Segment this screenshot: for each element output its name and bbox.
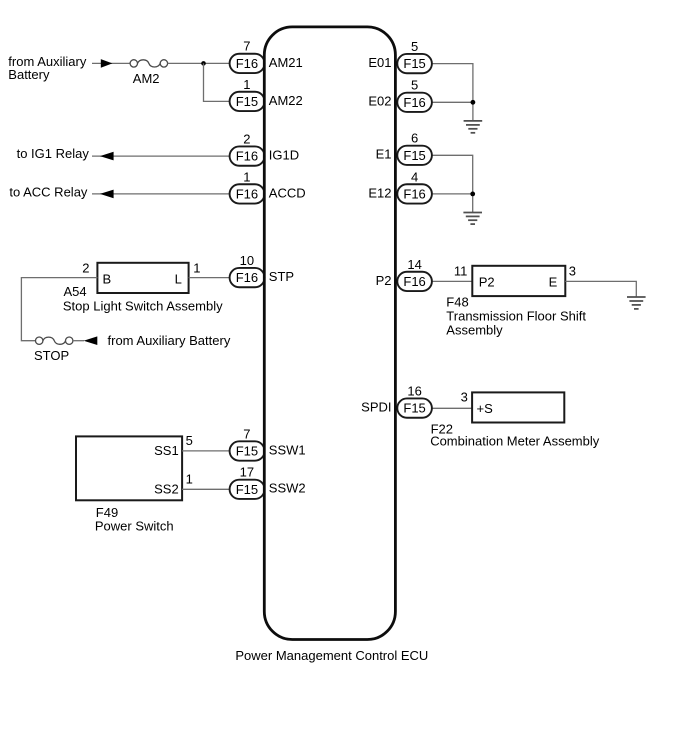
svg-text:E1: E1 bbox=[376, 147, 392, 162]
fuse AM2 bbox=[130, 60, 167, 67]
svg-text:A54: A54 bbox=[64, 284, 87, 299]
shift assembly F48 box bbox=[472, 266, 565, 296]
arrow from-auxiliary-battery (points right) bbox=[101, 59, 113, 68]
switch A54 box bbox=[97, 263, 188, 293]
svg-text:P2: P2 bbox=[479, 275, 495, 290]
ECU body outline bbox=[264, 27, 395, 640]
svg-text:1: 1 bbox=[186, 471, 193, 486]
wire E12 to junction bbox=[432, 193, 473, 195]
connector E02 F16 bbox=[397, 93, 432, 112]
svg-text:F15: F15 bbox=[403, 401, 425, 416]
meter F22 box bbox=[472, 392, 564, 422]
svg-text:E: E bbox=[549, 275, 558, 290]
svg-text:ACCD: ACCD bbox=[269, 185, 306, 200]
svg-text:4: 4 bbox=[411, 169, 418, 184]
connector E1 F15 bbox=[397, 146, 432, 165]
svg-text:E02: E02 bbox=[368, 94, 391, 109]
ground G3 bbox=[627, 297, 646, 309]
wire branch down to AM22 bbox=[204, 63, 231, 101]
svg-text:F15: F15 bbox=[236, 444, 258, 459]
svg-text:5: 5 bbox=[411, 78, 418, 93]
svg-text:P2: P2 bbox=[376, 273, 392, 288]
svg-text:to ACC Relay: to ACC Relay bbox=[9, 184, 88, 199]
svg-text:3: 3 bbox=[461, 389, 468, 404]
svg-text:3: 3 bbox=[569, 263, 576, 278]
wire to ACC relay bbox=[92, 193, 231, 195]
svg-text:SSW2: SSW2 bbox=[269, 481, 306, 496]
svg-text:2: 2 bbox=[82, 261, 89, 276]
wire F49 SS1 to SSW1 bbox=[182, 450, 230, 452]
junction node E02/ground bbox=[471, 100, 476, 105]
wire E01 to ground G1 bbox=[432, 64, 473, 121]
wire STOP fuse to arrow bbox=[73, 340, 84, 342]
arrow to-ACC-relay (points left) bbox=[100, 190, 114, 199]
svg-text:F15: F15 bbox=[403, 148, 425, 163]
svg-text:F16: F16 bbox=[236, 187, 258, 202]
svg-text:AM22: AM22 bbox=[269, 93, 303, 108]
svg-text:10: 10 bbox=[240, 253, 254, 268]
connector ACCD F16 bbox=[230, 184, 265, 203]
svg-text:F16: F16 bbox=[403, 187, 425, 202]
connector E01 F15 bbox=[397, 54, 432, 73]
svg-text:7: 7 bbox=[243, 39, 250, 54]
connector SSW2 F15 bbox=[230, 480, 265, 499]
junction node after AM2 bbox=[201, 61, 206, 66]
svg-text:1: 1 bbox=[243, 169, 250, 184]
svg-text:SSW1: SSW1 bbox=[269, 442, 306, 457]
svg-text:Power Management Control ECU: Power Management Control ECU bbox=[235, 648, 428, 663]
power switch F49 box bbox=[76, 436, 182, 500]
svg-text:1: 1 bbox=[243, 77, 250, 92]
connector E12 F16 bbox=[397, 184, 432, 203]
connector SSW1 F15 bbox=[230, 441, 265, 460]
wire to IG1 relay bbox=[92, 155, 231, 157]
svg-text:Stop Light Switch Assembly: Stop Light Switch Assembly bbox=[63, 299, 223, 314]
svg-text:6: 6 bbox=[411, 131, 418, 146]
svg-text:to IG1 Relay: to IG1 Relay bbox=[17, 146, 90, 161]
connector AM22 F15 bbox=[230, 92, 265, 111]
svg-text:STP: STP bbox=[269, 269, 294, 284]
connector IG1D F16 bbox=[230, 146, 265, 165]
fuse STOP bbox=[36, 337, 73, 344]
svg-text:AM21: AM21 bbox=[269, 55, 303, 70]
svg-text:Combination Meter Assembly: Combination Meter Assembly bbox=[430, 433, 600, 448]
svg-text:16: 16 bbox=[407, 384, 421, 399]
svg-text:F16: F16 bbox=[403, 274, 425, 289]
svg-text:E12: E12 bbox=[368, 185, 391, 200]
svg-text:F15: F15 bbox=[236, 94, 258, 109]
wire A54 to STP bbox=[189, 277, 231, 279]
svg-text:1: 1 bbox=[193, 261, 200, 276]
ground G2 bbox=[463, 213, 482, 225]
junction node E12/ground bbox=[470, 192, 475, 197]
svg-text:F48: F48 bbox=[446, 294, 468, 309]
wire SPDI to F22 bbox=[432, 407, 473, 409]
wire from auxiliary battery to fuse AM2 bbox=[92, 62, 130, 64]
svg-text:Power Switch: Power Switch bbox=[95, 519, 174, 534]
connector P2 F16 bbox=[397, 272, 432, 291]
svg-text:7: 7 bbox=[243, 426, 250, 441]
svg-text:SS1: SS1 bbox=[154, 443, 179, 458]
svg-text:STOP: STOP bbox=[34, 348, 69, 363]
ground G1 bbox=[464, 121, 483, 133]
svg-text:F16: F16 bbox=[236, 56, 258, 71]
arrow to-IG1-relay (points left) bbox=[100, 152, 114, 161]
svg-text:14: 14 bbox=[407, 257, 421, 272]
wire fuse AM2 to pin AM21 bbox=[168, 62, 231, 64]
svg-text:F16: F16 bbox=[236, 149, 258, 164]
svg-text:17: 17 bbox=[240, 465, 254, 480]
svg-text:F15: F15 bbox=[403, 56, 425, 71]
svg-text:AM2: AM2 bbox=[133, 71, 160, 86]
svg-text:SPDI: SPDI bbox=[361, 400, 391, 415]
svg-text:F16: F16 bbox=[403, 95, 425, 110]
wire A54 pin B down to STOP fuse bbox=[21, 278, 97, 341]
svg-text:Battery: Battery bbox=[8, 67, 50, 82]
svg-text:5: 5 bbox=[411, 39, 418, 54]
svg-text:5: 5 bbox=[186, 433, 193, 448]
wire E1 to ground G2 bbox=[432, 155, 473, 212]
svg-text:2: 2 bbox=[243, 132, 250, 147]
svg-text:Transmission Floor Shift: Transmission Floor Shift bbox=[446, 309, 586, 324]
svg-text:from Auxiliary Battery: from Auxiliary Battery bbox=[108, 333, 231, 348]
arrow from-auxiliary-battery-stop (points left) bbox=[84, 336, 98, 345]
svg-text:F16: F16 bbox=[236, 270, 258, 285]
svg-text:B: B bbox=[103, 271, 112, 286]
wire F48 E to ground G3 bbox=[565, 281, 636, 297]
wire F49 SS2 to SSW2 bbox=[182, 488, 230, 490]
svg-text:+S: +S bbox=[477, 401, 494, 416]
connector SPDI F15 bbox=[397, 398, 432, 417]
connector AM21 F16 bbox=[230, 54, 265, 73]
wire E02 to junction bbox=[432, 101, 473, 103]
svg-text:L: L bbox=[175, 271, 182, 286]
connector STP F16 bbox=[230, 268, 265, 287]
svg-text:SS2: SS2 bbox=[154, 481, 179, 496]
svg-text:IG1D: IG1D bbox=[269, 148, 299, 163]
svg-text:11: 11 bbox=[454, 263, 468, 278]
wire P2 to F48 bbox=[432, 280, 473, 282]
svg-text:Assembly: Assembly bbox=[446, 323, 503, 338]
svg-text:F15: F15 bbox=[236, 482, 258, 497]
svg-text:E01: E01 bbox=[368, 55, 391, 70]
